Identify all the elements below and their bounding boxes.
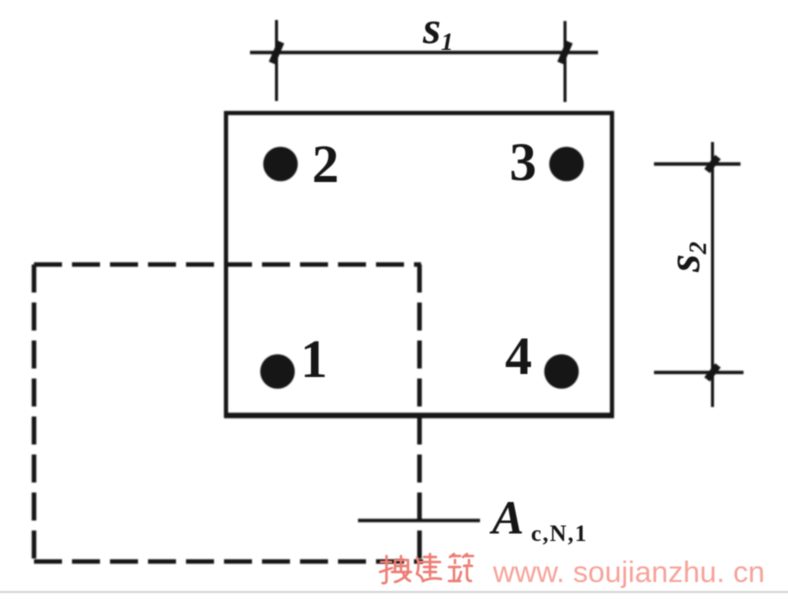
base plate outline (solid rectangle) xyxy=(226,113,612,415)
dashed rectangle left edge xyxy=(32,265,37,564)
dimension s2 top extension line xyxy=(654,162,741,165)
dimension s1 line xyxy=(250,51,598,54)
svg-text:3: 3 xyxy=(510,132,537,192)
anchor dot 4 (bottom-right) xyxy=(544,354,579,389)
dimension s1 left extension line xyxy=(275,20,278,101)
dimension s2 bottom extension line xyxy=(654,371,744,374)
dimension s2 bottom tick xyxy=(707,365,718,379)
anchor dot 2 (top-left) xyxy=(263,147,298,182)
char JIAN xyxy=(417,554,441,581)
base plate bottom edge (heavier) xyxy=(224,413,614,419)
dimension s1 right extension line xyxy=(564,21,567,102)
projected area A_c,N,1 dashed rectangle top edge xyxy=(34,262,421,267)
faint scan line at bottom xyxy=(0,591,788,593)
dimension s1 right tick xyxy=(561,42,570,63)
anchor dot 1 (bottom-left) xyxy=(260,354,295,389)
char SOU (hand radical + body) xyxy=(380,556,411,583)
svg-text:4: 4 xyxy=(505,326,532,386)
dashed rectangle right edge (vertical dashed line) xyxy=(417,265,422,564)
dashed rectangle bottom edge xyxy=(34,559,423,564)
dimension s2 line xyxy=(711,142,714,407)
svg-text:2: 2 xyxy=(312,134,339,194)
svg-text:A: A xyxy=(489,492,524,545)
leader line to A_c,N,1 xyxy=(358,519,480,523)
svg-text:www. soujianzhu. cn: www. soujianzhu. cn xyxy=(492,556,765,589)
watermark chinese characters: sou jian zhu xyxy=(380,554,473,583)
anchor dot 3 (top-right) xyxy=(549,147,584,182)
char ZHU xyxy=(449,554,473,581)
dimension s1 left tick xyxy=(272,42,281,63)
svg-text:c,N,1: c,N,1 xyxy=(531,521,588,546)
dimension s2 top tick xyxy=(707,157,718,171)
svg-text:1: 1 xyxy=(301,329,328,389)
